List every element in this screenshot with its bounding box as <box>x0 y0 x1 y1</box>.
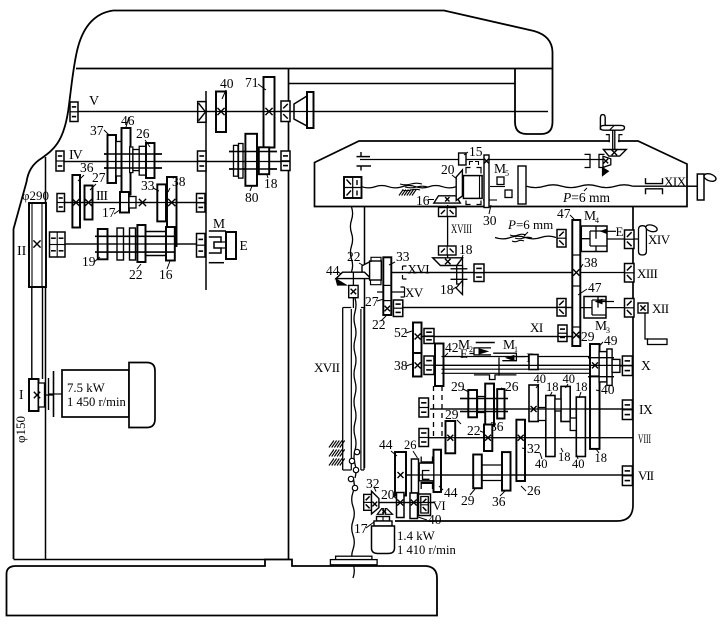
XVIII bevel <box>433 258 463 266</box>
jaw clutch VII <box>420 457 422 463</box>
M5 clutch squares <box>497 177 504 185</box>
svg-text:26: 26 <box>404 438 417 452</box>
gear 36 on IX <box>485 384 494 426</box>
shaft line overlays <box>78 111 548 113</box>
dashed spline <box>434 386 443 436</box>
gear 40 on X <box>529 355 538 370</box>
svg-text:44: 44 <box>444 485 458 500</box>
gear 33-27-22 column <box>383 257 391 315</box>
svg-text:VIII: VIII <box>638 431 651 446</box>
gear 42 <box>435 344 444 387</box>
svg-text:4: 4 <box>595 216 599 225</box>
gear 71 on V <box>264 77 275 148</box>
gear 46 on IV <box>122 128 131 195</box>
shaft IV line <box>64 161 290 163</box>
svg-text:29: 29 <box>581 329 595 344</box>
rim lines IX overlay <box>460 398 508 400</box>
svg-text:E: E <box>616 224 624 239</box>
svg-text:40: 40 <box>563 372 576 386</box>
gear 17 on III <box>120 192 129 213</box>
XII L bracket <box>645 313 648 339</box>
M3 arrow <box>596 301 614 303</box>
svg-text:44: 44 <box>326 263 340 278</box>
svg-text:47: 47 <box>588 280 602 295</box>
svg-text:XII: XII <box>652 301 669 316</box>
bar left of screw <box>484 155 489 208</box>
svg-text:18: 18 <box>440 282 454 297</box>
XII x square <box>638 303 648 313</box>
shaft IX line <box>430 408 633 410</box>
shaft XVIII <box>447 205 449 258</box>
motor mount <box>336 556 372 559</box>
X hub square <box>612 359 620 372</box>
IX rim lines <box>460 398 508 400</box>
gear 38 on III <box>167 177 177 246</box>
table squiggle <box>400 183 422 185</box>
XIV bearing <box>625 230 635 249</box>
svg-text:20: 20 <box>381 487 395 502</box>
table wavy shaft <box>362 186 457 188</box>
shaft I line <box>45 394 54 396</box>
gear small b right IV <box>239 144 244 179</box>
svg-text:XVI: XVI <box>408 262 430 277</box>
svg-text:IX: IX <box>639 402 653 417</box>
XII bearing <box>625 299 635 318</box>
x on III <box>139 199 146 206</box>
XVII top shaft <box>352 298 354 308</box>
svg-text:22: 22 <box>372 317 386 332</box>
gear 44 on VII <box>395 452 406 496</box>
svg-text:32: 32 <box>366 476 380 491</box>
svg-text:18: 18 <box>459 242 473 257</box>
XIV fork <box>639 226 647 255</box>
shaft II line <box>65 243 197 245</box>
svg-text:19: 19 <box>82 254 96 269</box>
handwheel XIX <box>697 174 704 200</box>
XIV x <box>638 236 644 242</box>
crank bevel <box>603 150 626 157</box>
gearbox wall <box>205 91 207 290</box>
gear 20 on VI <box>397 493 405 518</box>
svg-text:27: 27 <box>365 294 379 309</box>
svg-text:XVIII: XVIII <box>451 221 472 236</box>
gear 32 on VIII <box>516 420 525 481</box>
svg-text:29: 29 <box>461 493 475 508</box>
svg-text:5: 5 <box>505 169 509 178</box>
label φ150 <box>13 416 28 443</box>
svg-text:XIV: XIV <box>648 232 671 247</box>
shaft II bearing 2x2 <box>50 232 66 257</box>
svg-text:29: 29 <box>451 379 465 394</box>
svg-text:26: 26 <box>527 483 541 498</box>
svg-text:18: 18 <box>264 176 278 191</box>
main motor cap <box>129 363 155 428</box>
IX hub <box>478 397 486 413</box>
svg-text:27: 27 <box>92 170 106 185</box>
shaft VI line <box>379 502 434 504</box>
machine head outline <box>113 11 553 135</box>
gear 26 on VII left <box>411 459 418 493</box>
hub IV <box>130 147 133 173</box>
shaft III left bearing <box>57 194 65 212</box>
gear 18 on XVI <box>457 266 463 285</box>
svg-text:52: 52 <box>394 325 408 340</box>
shaft X line <box>434 364 633 366</box>
X right bearing <box>622 356 632 376</box>
gear 19 on II <box>98 229 108 259</box>
XVII top shaft 2 <box>352 272 354 285</box>
svg-text:22: 22 <box>467 423 481 438</box>
XVII x-square <box>349 285 358 297</box>
shaft V line <box>78 111 548 113</box>
IX left bearing <box>419 398 429 417</box>
XV left bearing <box>393 300 402 317</box>
VI bevel box <box>364 494 372 510</box>
svg-text:40: 40 <box>535 457 548 471</box>
shaft III wall bearing <box>197 194 206 213</box>
VII sleeve lines <box>482 464 502 466</box>
svg-text:φ150: φ150 <box>13 416 28 443</box>
crank bevel 2 <box>603 156 611 167</box>
shaft V right bearing <box>281 101 290 122</box>
XVII chain circles <box>354 449 359 454</box>
svg-text:15: 15 <box>469 144 483 159</box>
gear column 47-38-47-29 <box>572 220 580 346</box>
pulley φ290 <box>29 203 46 287</box>
gear a on II <box>117 228 124 260</box>
screw nut bar <box>518 166 526 204</box>
cross screw shaft <box>360 159 603 161</box>
shaft VII line <box>406 474 633 476</box>
column outline <box>13 229 15 559</box>
shaft IV rim lines <box>104 153 162 155</box>
M3 clutch <box>584 297 606 319</box>
gear 37 on IV <box>108 135 117 183</box>
gear 22 on II <box>137 225 145 262</box>
svg-text:38: 38 <box>172 174 186 189</box>
svg-text:37: 37 <box>90 123 104 138</box>
svg-text:22: 22 <box>347 249 361 264</box>
table clutch block <box>463 176 482 199</box>
feed motor <box>377 517 390 522</box>
gear 38 on X <box>413 353 422 377</box>
gear 36 on VII <box>502 452 511 491</box>
VIII left bearing <box>419 429 429 447</box>
gear b on II <box>130 228 136 260</box>
XVII hatch <box>329 441 334 448</box>
table bevel 20 <box>456 170 462 201</box>
svg-text:40: 40 <box>220 76 234 91</box>
shaft V left bearing <box>70 102 78 122</box>
gear 18b <box>546 396 555 457</box>
table top gap eraser <box>610 139 618 142</box>
shaft XIII line <box>580 272 633 274</box>
M4 clutch <box>581 226 607 252</box>
svg-text:18: 18 <box>558 450 571 464</box>
crank handle <box>600 115 605 130</box>
gear 29 on IX <box>468 390 477 417</box>
machine base <box>14 559 289 561</box>
table bevel 16 <box>434 196 461 203</box>
svg-text:18: 18 <box>575 380 588 394</box>
svg-text:VI: VI <box>433 498 446 513</box>
bevel 44 on XVII <box>336 272 371 278</box>
svg-text:18: 18 <box>595 451 608 465</box>
svg-text:XIII: XIII <box>637 266 658 281</box>
svg-text:I: I <box>19 387 24 402</box>
gear 16 on II <box>166 227 175 261</box>
motor bevel <box>377 509 383 515</box>
motor flange <box>53 371 55 417</box>
svg-text:42: 42 <box>445 340 459 355</box>
shaft III line <box>64 202 206 204</box>
svg-text:X: X <box>641 358 651 373</box>
svg-text:7.5 kW: 7.5 kW <box>67 381 106 395</box>
gear 80 on IV <box>245 134 257 186</box>
saddle bearing 2x2 <box>344 177 362 198</box>
svg-text:36: 36 <box>492 494 506 509</box>
gear 40 on VI <box>410 493 418 519</box>
shaft II wall bearing <box>197 234 206 258</box>
gear 44b sliding <box>434 450 442 492</box>
gear 36 on III <box>72 175 80 228</box>
svg-text:17: 17 <box>354 521 368 536</box>
svg-text:33: 33 <box>141 178 155 193</box>
X left bearing <box>424 356 434 375</box>
svg-text:30: 30 <box>483 213 497 228</box>
svg-text:38: 38 <box>394 358 408 373</box>
rim lines IV overlay <box>104 153 162 155</box>
VII right bearing <box>622 466 632 486</box>
sleeve IV b <box>139 146 146 175</box>
cross screw right bracket <box>585 154 591 167</box>
XV bracket <box>401 287 405 297</box>
clutch lower line <box>209 262 224 264</box>
shaft XV stub <box>377 291 404 293</box>
rim lines IV right overlay <box>229 151 277 153</box>
svg-text:47: 47 <box>557 206 571 221</box>
XVI bracket bearing <box>403 266 407 279</box>
svg-text:XVII: XVII <box>314 360 340 375</box>
svg-text:40: 40 <box>572 457 585 471</box>
svg-text:40: 40 <box>428 512 442 527</box>
clutch M body <box>209 237 221 253</box>
head horizontal line 1 <box>76 68 553 70</box>
sleeve III <box>129 197 136 209</box>
svg-text:P=6 mm: P=6 mm <box>507 217 553 232</box>
cross screw bearing <box>557 230 566 248</box>
XVIII top bearing <box>439 208 457 217</box>
XVII tube <box>342 308 344 471</box>
svg-text:32: 32 <box>527 441 541 456</box>
svg-text:16: 16 <box>416 193 430 208</box>
shaft IV right bearing <box>281 151 290 171</box>
gear 15 square <box>459 153 466 165</box>
rim ticks X overlay <box>588 357 614 359</box>
svg-text:E: E <box>460 346 468 361</box>
XI clutch sleeve <box>498 357 500 375</box>
cross screw squiggle <box>510 234 526 236</box>
svg-text:18: 18 <box>546 380 559 394</box>
XIII bearing <box>625 264 635 283</box>
crank brackets <box>606 135 609 143</box>
belt drive <box>31 287 33 379</box>
svg-text:22: 22 <box>129 267 143 282</box>
svg-text:80: 80 <box>245 190 259 205</box>
XVI clutch block <box>370 261 382 280</box>
shaft XVI line <box>391 272 572 274</box>
svg-text:1.4 kW: 1.4 kW <box>397 529 436 543</box>
XI left bearing <box>424 329 434 344</box>
IX right bearing <box>622 400 632 420</box>
gear 26 on IX <box>497 389 504 418</box>
shaft IV wall bearing <box>198 151 207 171</box>
svg-text:1 410 r/min: 1 410 r/min <box>397 543 456 557</box>
rim lines II overlay <box>95 235 175 237</box>
svg-text:2: 2 <box>469 345 473 354</box>
gear 52 on XI <box>413 323 422 354</box>
svg-text:26: 26 <box>505 379 519 394</box>
svg-text:40: 40 <box>534 372 547 386</box>
svg-text:V: V <box>89 94 99 109</box>
bevel 32 on VI <box>372 491 379 514</box>
gear 40c <box>561 386 570 421</box>
svg-text:II: II <box>17 244 27 259</box>
shaft XIV line <box>607 238 641 240</box>
table lead screw <box>527 185 634 188</box>
X hub bars <box>599 352 607 382</box>
mesh ticks 18-XVI overlay <box>451 268 468 270</box>
svg-text:VII: VII <box>638 468 654 483</box>
svg-text:III: III <box>96 189 108 204</box>
shaft XV-XII line <box>403 307 573 309</box>
shaft VIII line <box>429 437 634 439</box>
svg-text:71: 71 <box>245 75 259 90</box>
pulley φ150 <box>29 379 39 411</box>
svg-text:M: M <box>213 216 225 231</box>
gear 18d <box>576 397 585 457</box>
gear 49-40 column <box>590 344 600 449</box>
sleeve II wide <box>146 231 167 233</box>
gear 29 on VIII <box>446 421 456 453</box>
table outline <box>315 141 688 207</box>
shaft XI line <box>422 336 572 338</box>
shaft V clutch at wall <box>198 102 206 123</box>
gear 40a IX <box>529 385 538 422</box>
shaft IV left bearing <box>56 151 64 171</box>
main motor body <box>62 370 129 417</box>
gear 33 on III <box>157 184 166 221</box>
svg-text:33: 33 <box>396 249 410 264</box>
XVI bearing <box>474 264 484 282</box>
svg-text:XI: XI <box>530 320 543 335</box>
VI bearing <box>419 494 431 516</box>
svg-text:1 450 r/min: 1 450 r/min <box>67 395 126 409</box>
svg-text:P=6 mm: P=6 mm <box>562 190 610 205</box>
cone 22 on XVI <box>362 262 370 279</box>
gear 26 on IV <box>146 143 155 178</box>
head horizontal line 2 <box>289 83 516 85</box>
gear 22 on VIII <box>484 425 492 452</box>
gear 40 on V <box>216 92 226 133</box>
cross screw wavy <box>495 236 556 239</box>
XIX bracket bearing <box>646 178 663 184</box>
M2 clutch symbol <box>476 342 495 344</box>
XVII wavy <box>350 207 352 272</box>
svg-text:26: 26 <box>136 126 150 141</box>
svg-text:XV: XV <box>405 285 424 300</box>
gear 18 on IV <box>259 147 269 174</box>
svg-text:44: 44 <box>379 437 393 452</box>
M1 clutch symbol <box>493 353 516 361</box>
spindle nose cone <box>294 96 307 126</box>
XV right bearing <box>557 299 566 317</box>
svg-text:20: 20 <box>441 162 455 177</box>
svg-text:φ290: φ290 <box>22 188 49 203</box>
X rim ticks <box>588 357 614 359</box>
cross screw left bracket <box>357 156 371 158</box>
XVIII lower bearing <box>439 246 457 255</box>
feed gearbox outline <box>364 207 366 469</box>
svg-text:38: 38 <box>584 255 598 270</box>
shaft XII line <box>580 307 633 309</box>
shaft IV right rim lines <box>229 151 277 153</box>
svg-text:3: 3 <box>606 326 610 335</box>
gear 29 on VII <box>473 455 482 489</box>
XI right bearing <box>558 325 567 342</box>
gear small a right IV <box>234 145 239 176</box>
svg-text:49: 49 <box>604 333 618 348</box>
svg-text:17: 17 <box>102 205 116 220</box>
sleeve IV a <box>116 142 122 177</box>
E arrow XIV <box>601 230 616 232</box>
svg-text:E: E <box>240 238 248 253</box>
gear 27 on III <box>85 186 93 220</box>
svg-text:16: 16 <box>159 267 173 282</box>
svg-text:XIX: XIX <box>664 174 687 189</box>
